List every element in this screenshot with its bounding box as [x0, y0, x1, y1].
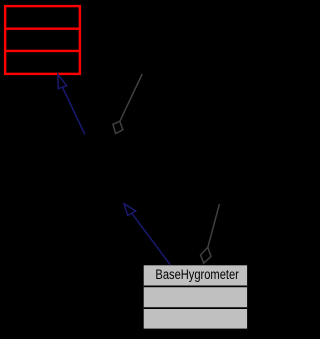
svg-text:BaseHygrometer: BaseHygrometer	[155, 267, 239, 282]
